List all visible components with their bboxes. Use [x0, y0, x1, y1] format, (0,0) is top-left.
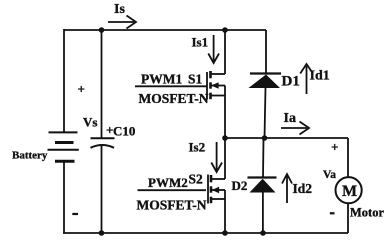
wire left rail lower (battery -) [63, 162, 65, 234]
wire S1 source branch [224, 86, 226, 139]
node junction D1 / middle rail [262, 135, 268, 141]
svg-text:Motor: Motor [350, 206, 384, 220]
diode D2 [248, 178, 277, 193]
battery BT (Vs) [48, 132, 79, 161]
wire S1 drain branch [224, 30, 226, 74]
arrow Is [108, 16, 136, 29]
node junction D2 / bottom rail [260, 230, 266, 236]
arrow Is1 [208, 35, 219, 63]
wire S2 source branch [224, 190, 226, 233]
svg-text:MOSFET-N: MOSFET-N [137, 198, 207, 213]
motor M [336, 177, 362, 203]
wire D2 anode branch [262, 192, 264, 233]
svg-text:C10: C10 [113, 124, 135, 139]
node junction top of C10 [99, 27, 105, 33]
label motor - [330, 212, 335, 214]
transistor S1 (N-MOSFET) [207, 71, 225, 100]
svg-text:Battery: Battery [12, 150, 48, 162]
svg-text:Va: Va [323, 169, 336, 181]
arrow Is2 [211, 142, 222, 172]
svg-text:Ia: Ia [284, 111, 296, 126]
svg-text:Is1: Is1 [192, 35, 209, 50]
wire C10 upper [101, 30, 103, 138]
wire C10 lower [101, 146, 103, 233]
svg-text:+: + [78, 82, 85, 97]
diode D1 [249, 74, 282, 89]
node junction S2 source / bottom rail [222, 230, 228, 236]
capacitor C10 [91, 138, 115, 148]
wire D1 anode branch [265, 88, 266, 139]
wire bottom rail [63, 232, 348, 234]
node junction S1 source / middle rail [222, 135, 228, 141]
wire S2 drain branch [224, 138, 226, 179]
node junction bottom of C10 [99, 230, 105, 236]
svg-text:PWM2: PWM2 [148, 175, 188, 190]
svg-text:S1: S1 [188, 72, 203, 87]
svg-text:Vs: Vs [83, 115, 97, 130]
svg-text:M: M [342, 183, 357, 200]
svg-text:D2: D2 [232, 178, 248, 193]
transistor S2 (N-MOSFET) [208, 175, 225, 204]
svg-text:Is2: Is2 [189, 140, 206, 155]
arrow Ia [281, 122, 309, 135]
arrow Id2 [282, 174, 292, 203]
svg-text:+: + [331, 140, 338, 155]
svg-text:Id1: Id1 [310, 69, 330, 84]
wire D2 cathode branch [262, 138, 265, 178]
svg-text:Is: Is [114, 2, 125, 17]
wire D1 cathode branch [265, 30, 267, 74]
wire middle rail (to motor) [225, 137, 348, 139]
wire top rail [64, 29, 266, 31]
arrow Id1 [300, 64, 313, 94]
wire gate lead S2 (underline) [138, 189, 207, 191]
wire motor upper [347, 138, 349, 177]
wire gate lead S1 (underline) [135, 85, 207, 87]
wire motor lower [347, 203, 349, 233]
svg-text:S2: S2 [189, 172, 204, 187]
label battery - [72, 213, 78, 215]
svg-text:Id2: Id2 [293, 181, 313, 196]
svg-text:D1: D1 [282, 74, 300, 90]
node junction top of S1 [222, 27, 228, 33]
wire left rail upper (battery +) [63, 29, 65, 132]
svg-text:PWM1: PWM1 [141, 72, 182, 87]
svg-text:MOSFET-N: MOSFET-N [139, 91, 209, 106]
